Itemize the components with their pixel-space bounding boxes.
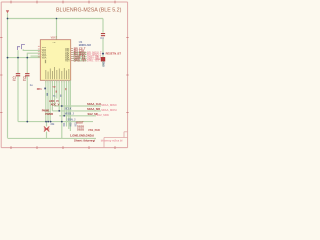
svg-text:1,GND,GND,GND,6: 1,GND,GND,GND,6 xyxy=(70,133,94,137)
wire pin b12 xyxy=(69,80,71,131)
wire pin b7 to L2 xyxy=(59,80,101,111)
wire: top horizontal rail xyxy=(8,18,104,20)
svg-text:SDAA_MISO: SDAA_MISO xyxy=(101,103,116,107)
svg-text:GND: GND xyxy=(102,61,105,67)
svg-text:Sheet: /bluenrg/: Sheet: /bluenrg/ xyxy=(74,139,95,143)
svg-text:ADC_V: ADC_V xyxy=(51,102,60,106)
wire pin b9 to L3 xyxy=(64,80,96,116)
wire pin b8 to GND rail xyxy=(61,80,63,138)
svg-text:IO1: IO1 xyxy=(63,122,66,127)
wire crystal upper stub xyxy=(46,122,48,127)
svg-text:TP: TP xyxy=(52,86,55,89)
svg-text:RESETN_BT: RESETN_BT xyxy=(106,52,122,56)
IC U1 bottom pin numbers xyxy=(45,81,69,83)
IC U1 right pin names xyxy=(65,48,70,62)
sheet border frame xyxy=(1,2,127,148)
capacitor C2 xyxy=(25,74,29,76)
svg-text:IO2: IO2 xyxy=(69,122,72,127)
svg-text:DB2B: DB2B xyxy=(77,127,84,131)
wire: stub under flag A xyxy=(17,50,19,57)
svg-text:32k: 32k xyxy=(50,123,55,126)
svg-text:VSS_PAD: VSS_PAD xyxy=(88,128,100,132)
power flag VDD xyxy=(6,10,9,13)
title block xyxy=(104,132,128,148)
wire pin b11 xyxy=(68,80,70,129)
crystal X1 xyxy=(44,127,49,132)
IC U1 left pin names xyxy=(42,47,47,60)
svg-text:SDN_2: SDN_2 xyxy=(68,118,77,121)
wire: IC pin row 1 w/ flag xyxy=(23,49,40,50)
wire: IC pin row 3 xyxy=(31,55,41,57)
wire pin b2 xyxy=(47,80,49,121)
wire bus L4 xyxy=(18,121,93,123)
svg-text:GPIO_TST: GPIO_TST xyxy=(74,60,87,63)
svg-text:VB: VB xyxy=(52,42,55,44)
capacitor C2 wire upper xyxy=(26,58,28,74)
IC U1 BlueNRG-M2SA body xyxy=(40,40,70,81)
capacitor C1 wire upper xyxy=(17,58,19,74)
junction right column xyxy=(102,53,104,55)
wire: left VDD rail vertical xyxy=(7,13,9,138)
wire pin b5 to L1 xyxy=(55,80,101,106)
IC U1 left pin numbers xyxy=(38,46,40,57)
net labels right pins pink xyxy=(87,52,103,63)
capacitor C2 wire lower xyxy=(26,76,28,121)
capacitor C1 wire lower xyxy=(17,76,19,121)
wire: right column vertical lower xyxy=(102,38,104,57)
wire pin b4 xyxy=(51,80,53,111)
svg-text:BLUENRG-M2SA (BLE 5.2): BLUENRG-M2SA (BLE 5.2) xyxy=(56,8,122,14)
wire crystal lower stub xyxy=(46,132,48,139)
wire: drop to IC top pin xyxy=(56,19,58,40)
wire L2 left tail xyxy=(52,110,59,112)
resistor R1 xyxy=(101,57,105,61)
svg-text:PWM1: PWM1 xyxy=(42,108,50,112)
wires: IC right pins to labels xyxy=(73,53,87,61)
svg-text:1u: 1u xyxy=(30,83,33,87)
capacitor C3 (series, right column) xyxy=(101,34,105,36)
wire GND rail bottom xyxy=(8,137,97,139)
svg-text:RF1: RF1 xyxy=(37,87,42,91)
net flag B xyxy=(22,45,25,50)
IC U1 bottom pin names xyxy=(46,67,70,79)
svg-text:SCLK: SCLK xyxy=(65,108,72,111)
IC U1 sub label xyxy=(45,60,46,63)
wire pin b1 xyxy=(45,80,47,121)
wire pin b3 xyxy=(49,80,51,121)
svg-text:bluenrg-m2sa bl: bluenrg-m2sa bl xyxy=(101,139,123,143)
svg-text:VBA: VBA xyxy=(42,57,47,60)
svg-text:ADC_VI: ADC_VI xyxy=(49,99,59,103)
net labels right pins dark xyxy=(74,47,87,62)
svg-text:PWM2: PWM2 xyxy=(45,112,53,116)
svg-text:SDAA_MOSI: SDAA_MOSI xyxy=(101,108,117,112)
wire: IC pin row 2 xyxy=(27,53,40,57)
svg-text:BNRG-M2: BNRG-M2 xyxy=(79,43,92,47)
svg-text:SG2_SDN: SG2_SDN xyxy=(97,113,109,117)
svg-text:VBA: VBA xyxy=(42,54,47,57)
wire pin b10 xyxy=(66,80,68,126)
svg-text:10k: 10k xyxy=(96,58,101,61)
wire: right column vertical upper xyxy=(102,19,104,33)
wire: left rail to IC pin row 4 xyxy=(8,57,41,59)
svg-text:SDAA_SDI: SDAA_SDI xyxy=(87,107,100,111)
IC right pin stubs xyxy=(71,48,73,60)
svg-text:1u: 1u xyxy=(23,78,26,82)
capacitor C1 xyxy=(16,74,20,76)
svg-text:BOOT: BOOT xyxy=(76,122,84,125)
svg-text:VBAT: VBAT xyxy=(51,36,58,39)
wire L3 left tail xyxy=(59,115,64,117)
svg-text:1u: 1u xyxy=(12,78,15,82)
svg-text:RST: RST xyxy=(65,61,70,63)
svg-text:VD1: VD1 xyxy=(42,47,47,49)
wire below resistor R1 xyxy=(102,61,104,66)
junction dots xyxy=(7,18,65,123)
svg-text:GPIO_TST_T: GPIO_TST_T xyxy=(87,60,103,63)
tiny label noise on bottom wires xyxy=(47,93,48,96)
svg-text:MOSI_2: MOSI_2 xyxy=(65,113,75,116)
wire pin b6 xyxy=(56,80,58,98)
net flag A xyxy=(17,47,20,50)
svg-text:IO3: IO3 xyxy=(74,122,77,127)
IC bottom wires xyxy=(8,80,101,138)
svg-text:SDAA_CLK: SDAA_CLK xyxy=(87,102,101,106)
